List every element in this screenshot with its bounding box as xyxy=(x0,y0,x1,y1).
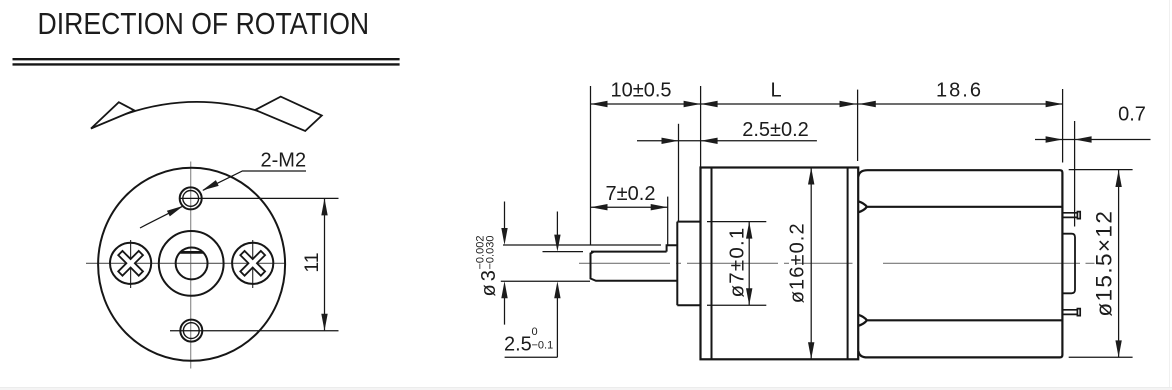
rotation arrowhead right xyxy=(255,97,322,131)
left screw cross xyxy=(110,243,151,284)
ext line gearbox rear xyxy=(857,90,859,161)
svg-text:18.6: 18.6 xyxy=(936,79,983,101)
right screw head circle xyxy=(232,243,273,284)
extension line top hole xyxy=(180,197,339,199)
arrowhead 11 down xyxy=(321,314,327,331)
leader arrowhead upper xyxy=(202,180,219,190)
motor can outline xyxy=(858,170,1062,357)
right screw cross xyxy=(232,243,273,284)
dimension 2.5 0/-0.1 arrows xyxy=(505,212,558,358)
gearbox inner right plate xyxy=(847,168,849,360)
shaft outline xyxy=(591,245,678,280)
footer grey strip xyxy=(0,387,1172,390)
ext line gearbox front xyxy=(700,86,702,167)
dimension line row1 xyxy=(591,103,1063,105)
dimension 0.7 xyxy=(1035,139,1151,141)
svg-text:2-M2: 2-M2 xyxy=(261,149,307,171)
dimension dia16 line xyxy=(810,168,812,360)
svg-text:ø3: ø3 xyxy=(478,267,500,296)
arrowhead 11 up xyxy=(321,198,327,215)
gearbox body xyxy=(701,168,859,360)
dimension 2.5+-0.2 xyxy=(637,140,817,142)
extension line bottom hole xyxy=(170,330,339,332)
svg-text:ø15.5×12: ø15.5×12 xyxy=(1092,210,1117,317)
arrowheads row1 xyxy=(591,101,701,107)
bottom M2 hole xyxy=(180,320,202,342)
svg-text:−0.030: −0.030 xyxy=(484,236,496,270)
terminal top xyxy=(1062,212,1080,219)
ext line boss face xyxy=(678,124,680,222)
shaft circle xyxy=(176,247,208,279)
double rule under title xyxy=(13,59,400,64)
motor flange outer circle xyxy=(98,168,285,361)
label dia3 tolerance xyxy=(474,236,500,297)
center boss circle xyxy=(159,231,224,296)
right screw centerline xyxy=(252,240,254,288)
svg-text:ø7±0.1: ø7±0.1 xyxy=(726,227,749,298)
bearing boss xyxy=(677,222,700,306)
dimension line 11 xyxy=(324,198,326,330)
ext line motor end xyxy=(1062,89,1064,163)
svg-text:ø16±0.2: ø16±0.2 xyxy=(787,222,809,303)
dimension dia15.5 line xyxy=(1118,170,1120,357)
gearbox inner left plate xyxy=(711,168,713,360)
svg-text:2.5: 2.5 xyxy=(504,334,532,356)
ext line shaft tip xyxy=(590,86,592,245)
rotation arrowhead left xyxy=(91,102,134,128)
svg-text:7±0.2: 7±0.2 xyxy=(606,183,656,205)
dimension dia3 arrows xyxy=(504,202,506,325)
right page border xyxy=(1169,0,1171,387)
ext line shaft flat left xyxy=(543,251,584,253)
shaft centerline xyxy=(579,262,1095,264)
dimension dia7 line xyxy=(748,222,750,306)
svg-text:−0.1: −0.1 xyxy=(532,340,554,352)
svg-text:0.7: 0.7 xyxy=(1118,103,1146,125)
shaft flat chord xyxy=(180,251,203,254)
svg-text:DIRECTION OF ROTATION: DIRECTION OF ROTATION xyxy=(38,7,370,41)
leader line lower xyxy=(140,206,184,228)
brush end cap xyxy=(1062,234,1075,294)
leader line for 2-M2 xyxy=(203,171,306,190)
ext line shaft top full dia xyxy=(503,244,661,246)
svg-text:11: 11 xyxy=(301,252,323,272)
svg-text:L: L xyxy=(770,79,781,101)
front view vertical centerline xyxy=(190,162,192,369)
ext line shaft bottom xyxy=(501,280,590,282)
terminal bottom xyxy=(1062,309,1080,316)
dimension 7+-0.2 xyxy=(591,206,668,208)
svg-text:10±0.5: 10±0.5 xyxy=(610,79,671,101)
ext line shaft step xyxy=(667,197,669,246)
leader arrowhead lower xyxy=(167,206,184,217)
rotation arrow arc xyxy=(91,102,306,131)
top M2 hole xyxy=(180,187,202,209)
left screw head circle xyxy=(110,243,151,284)
svg-text:2.5±0.2: 2.5±0.2 xyxy=(742,119,809,141)
left screw centerline xyxy=(130,240,132,288)
svg-text:0: 0 xyxy=(532,326,538,338)
front view horizontal centerline xyxy=(86,262,285,264)
ext lines dia15.5 xyxy=(1069,170,1133,358)
ext line 0.7 right xyxy=(1074,121,1076,227)
ext lines dia7 xyxy=(707,222,766,306)
